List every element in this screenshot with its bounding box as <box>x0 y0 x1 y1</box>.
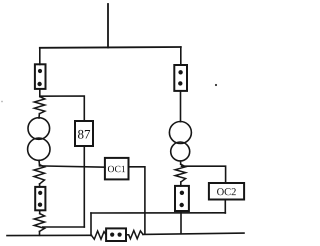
winding G1a (left upper circle) <box>28 118 50 140</box>
wire right drop to CT3 <box>180 47 182 65</box>
resistor Z4 (right zigzag) <box>175 164 185 182</box>
wire loop vertical at x91 <box>90 213 92 235</box>
wire bottom rail right <box>143 233 244 234</box>
wire top bus <box>40 46 181 49</box>
wire Z3 to bottom rail <box>39 231 41 235</box>
wire CT T2 to resistor Z3 <box>39 210 41 213</box>
CT T1 (left breaker/CT box with dots) <box>35 64 46 89</box>
wire left drop to CT1 <box>39 48 41 65</box>
wire bottom rail left <box>7 234 91 236</box>
wire top feed <box>107 4 109 48</box>
wire tap to relay 87 <box>40 96 85 121</box>
CT T4 (right lower box with dots) <box>175 186 189 211</box>
node speckle dot <box>215 84 217 86</box>
winding G1b (left lower circle) <box>28 138 50 160</box>
svg-text:87: 87 <box>77 126 91 141</box>
wire winding to resistor Z2 <box>38 160 41 164</box>
wire OC1 right lead <box>129 167 145 234</box>
resistor Z3 (left bottom zigzag) <box>34 214 44 232</box>
wire winding to Z4 <box>180 161 182 164</box>
wire Z2 to CT T2 <box>39 184 41 187</box>
winding G2b (right lower circle) <box>171 142 190 161</box>
wire CT1 to resistor <box>39 89 41 97</box>
wire relay 87 lead down <box>83 146 85 227</box>
wire to relay OC1 <box>40 166 106 167</box>
wire loop horizontal y213 <box>91 212 225 214</box>
svg-text:OC1: OC1 <box>108 164 126 175</box>
resistor Rh1 (bottom left horizontal zigzag) <box>91 231 106 239</box>
node faint speck left margin <box>1 101 3 103</box>
wire relay 87 return to Z3 <box>43 226 85 228</box>
CT T2 (left lower box with dots) <box>35 187 45 210</box>
wire tap to relay OC2 <box>182 166 226 183</box>
svg-text:OC2: OC2 <box>217 187 237 198</box>
relay OC1 (overcurrent relay box) <box>105 158 129 180</box>
op-amp relay 87 (differential relay box) <box>75 121 93 146</box>
wire resistor to winding <box>38 114 40 118</box>
resistor Z1 (left upper zigzag) <box>34 97 45 114</box>
wire OC2 bottom lead <box>224 200 226 214</box>
winding G2a (right upper circle) <box>169 122 191 144</box>
wire CT3 to winding <box>180 91 182 122</box>
resistor Rh2 (bottom right horizontal zigzag) <box>126 231 143 239</box>
CT T3 (right upper box with dots) <box>174 65 187 91</box>
resistor Z2 (left middle zigzag) <box>34 165 45 184</box>
wire Z4 to CT T4 <box>180 182 182 186</box>
CT T5 (bottom horizontal box with dots) <box>106 228 126 241</box>
wire CT T4 to bottom rail <box>180 211 182 234</box>
relay OC2 (overcurrent relay box) <box>209 183 244 200</box>
